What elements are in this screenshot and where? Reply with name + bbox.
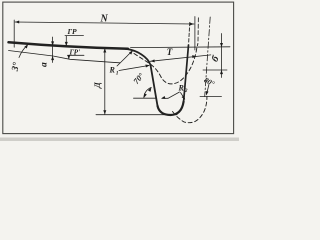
node: a-dim top arrow xyxy=(51,41,54,45)
svg-text:1: 1 xyxy=(116,71,119,77)
wire: 3-degree curved leader xyxy=(19,45,28,58)
node: R2 arrow right xyxy=(182,95,187,100)
arrowheads xyxy=(15,21,223,115)
wire: dash-dot inclined construction line xyxy=(205,17,211,97)
wire: right lower limit line xyxy=(203,69,227,71)
node: R1 arrow upper xyxy=(129,49,134,54)
wire: GR label leader xyxy=(65,36,67,46)
wire: D depth dimension vertical xyxy=(104,48,106,114)
node: D-dim bottom arrow xyxy=(103,110,106,114)
wire: solid U groove bottom R2 xyxy=(158,102,184,116)
wire: 70-degree horizontal leg xyxy=(134,97,157,99)
wire: R1 leader to flank xyxy=(119,66,149,71)
node: right dim top arrow xyxy=(220,43,223,47)
svg-text:ГР: ГР xyxy=(67,27,78,36)
node: 80-leader arrowhead xyxy=(205,91,209,96)
border frame xyxy=(3,2,234,134)
wire: dashed extension above wheel flank xyxy=(197,17,199,41)
wire: dashed continuation of right flank xyxy=(189,22,190,42)
node: R2 arrow left xyxy=(161,96,166,100)
wire: R1 leader to top rounding xyxy=(117,51,132,66)
wire: right small dimension vertical xyxy=(221,34,223,78)
wire: GR-prime label leader xyxy=(68,56,70,59)
wire: bottom reference line xyxy=(96,114,177,116)
node: right dim bottom arrow xyxy=(220,70,223,74)
node: 70-arc lower arrowhead xyxy=(143,93,147,98)
paper background xyxy=(0,0,239,141)
labels xyxy=(9,14,222,95)
node: D-dim top arrow xyxy=(103,48,106,52)
node: T left arrow xyxy=(150,59,154,62)
wire: thin lower line GR-prime xyxy=(9,51,121,63)
node: GR-prime leader arrow xyxy=(67,55,70,59)
node: 70-arc upper arrowhead xyxy=(148,87,153,92)
svg-text:ГР': ГР' xyxy=(69,48,81,56)
wire: T dimension line xyxy=(150,55,211,61)
svg-text:T: T xyxy=(167,47,173,57)
svg-text:Д: Д xyxy=(92,81,102,89)
wire: dashed wheel profile lower arc xyxy=(173,96,207,122)
node: R1 arrow lower xyxy=(145,64,150,68)
node: N right arrow xyxy=(190,23,194,26)
wire: 80-degree curved leader xyxy=(206,85,209,95)
wire: 80-degree horizontal leg xyxy=(200,96,222,98)
node: a-dim bottom arrow xyxy=(51,56,54,60)
node: N left arrow xyxy=(15,21,19,24)
wire: solid right flank xyxy=(184,45,189,102)
wire: right upper limit line xyxy=(131,46,231,49)
wire: GR-prime label underline xyxy=(68,54,85,56)
wire: GR label underline xyxy=(65,35,84,37)
svg-text:2: 2 xyxy=(184,88,188,94)
svg-text:N: N xyxy=(100,14,109,25)
node B: right extension line of N xyxy=(194,17,196,51)
wire: R2 leader left xyxy=(162,92,180,98)
node: T right arrow xyxy=(192,55,196,58)
node A: left extension line xyxy=(13,20,15,47)
wire: R2 leader right xyxy=(181,93,185,99)
wire: 70-degree angle arc xyxy=(144,87,152,98)
wire: small a dimension vertical xyxy=(52,37,54,63)
svg-text:а: а xyxy=(39,62,49,67)
wire: N dimension line xyxy=(15,22,194,24)
wire: R1 rounding into 70-degree flank xyxy=(125,49,158,106)
wire: thick top profile line GR xyxy=(9,42,129,49)
node: GR leader arrow xyxy=(65,42,68,46)
svg-text:R: R xyxy=(178,84,185,93)
svg-text:R: R xyxy=(109,66,116,75)
wire: dashed wheel profile upper U xyxy=(134,44,198,84)
node: 3-degree leader arrow xyxy=(24,43,29,48)
